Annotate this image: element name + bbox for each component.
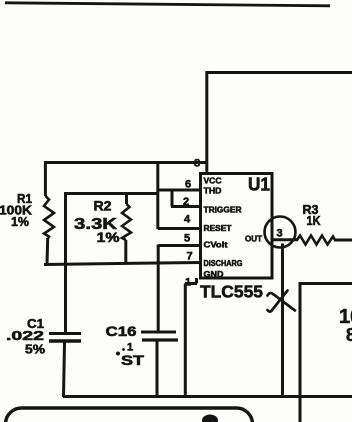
svg-text:8: 8	[346, 325, 352, 345]
wire pin 8 vertical drop	[205, 71, 208, 174]
svg-text:RESET: RESET	[204, 223, 233, 233]
pin number 8	[194, 158, 200, 170]
label R1 value 100K	[0, 203, 33, 218]
svg-text:7: 7	[187, 251, 193, 263]
label R1 tolerance 1%	[11, 214, 29, 229]
resistor R1	[44, 196, 54, 238]
wire pin 5 stub	[158, 244, 200, 247]
svg-text:1K: 1K	[307, 213, 322, 228]
label TLC555	[200, 282, 263, 302]
label clipped glyph below 10	[346, 325, 352, 345]
pin label DISCHARG	[204, 258, 243, 268]
wire bottom ground rail	[63, 395, 352, 398]
label C16 marking ST	[116, 352, 145, 369]
label R3	[303, 202, 319, 217]
capacitor C16 top plate	[141, 331, 176, 334]
label C1 tolerance 5%	[25, 342, 45, 357]
label C16	[106, 324, 137, 339]
svg-text:U1: U1	[248, 175, 270, 195]
svg-text:CVolt: CVolt	[204, 240, 228, 250]
wire vertical VCC to reset tie	[156, 162, 159, 229]
pin label CVolt	[204, 240, 228, 250]
svg-text:TRIGGER: TRIGGER	[204, 205, 243, 215]
pin label RESET	[204, 223, 233, 233]
wire top border rule	[5, 3, 330, 6]
svg-text:6: 6	[185, 179, 191, 191]
wire pin 3 output stub	[272, 238, 298, 241]
op-amp U1 IC body TLC555	[201, 174, 273, 279]
capacitor C16 bottom plate	[142, 338, 178, 341]
svg-text:DISCHARG: DISCHARG	[204, 258, 243, 268]
pin number 6	[185, 179, 191, 191]
pin label GND	[204, 269, 224, 279]
svg-text:5: 5	[184, 233, 190, 245]
pin label TRIGGER	[204, 205, 243, 215]
svg-text:1%: 1%	[11, 214, 29, 229]
svg-text:3: 3	[277, 228, 283, 240]
wire control node vertical (pin5/pin7 to C16)	[157, 245, 160, 332]
svg-text:4: 4	[184, 214, 191, 226]
wire output down to bottom rail	[281, 244, 284, 398]
wire R1 top lead	[44, 161, 47, 196]
svg-text:1: 1	[127, 342, 133, 354]
wire C16 bottom lead	[156, 342, 159, 398]
svg-text:2: 2	[183, 196, 189, 208]
X cut mark on output wire	[268, 291, 296, 312]
label clipped text inside rounded box	[202, 415, 218, 422]
wire R2 top lead	[125, 193, 128, 204]
pin number 5	[184, 233, 190, 245]
wire C1 bottom lead	[64, 343, 65, 398]
wire pin 2 tie-up	[171, 189, 201, 207]
label R2	[94, 198, 112, 214]
label C1 value .022	[6, 328, 44, 343]
wire THD to pin 6	[157, 189, 201, 192]
wire bottom node horizontal (R1/R2/C1 to pin 7)	[44, 263, 201, 265]
label R1	[17, 191, 32, 206]
wire pin 4 stub	[158, 227, 201, 230]
svg-text:GND: GND	[204, 269, 224, 279]
svg-text:1%: 1%	[97, 230, 120, 245]
label U1	[248, 175, 270, 195]
svg-text:ST: ST	[121, 353, 145, 368]
wire pin 1 GND jog	[185, 278, 197, 284]
label R2 tolerance 1%	[97, 230, 120, 245]
block bottom rounded callout box	[6, 408, 253, 422]
pin number 7	[187, 251, 193, 263]
label R2 value 3.3K	[74, 216, 118, 233]
wire THD node vertical (down to C1)	[64, 193, 67, 334]
wire VCC top-right rail	[207, 71, 352, 74]
label C1	[27, 316, 44, 331]
capacitor C1 bottom plate	[49, 339, 81, 342]
resistor R2	[122, 204, 131, 240]
pin label THD	[204, 186, 222, 196]
label 10 (clipped at right edge)	[339, 306, 352, 328]
capacitor C1 top plate	[49, 332, 81, 335]
pin label OUT	[245, 234, 263, 244]
svg-text:TLC555: TLC555	[200, 282, 263, 302]
label C16 value 1	[122, 342, 133, 354]
pin number 2	[183, 196, 189, 208]
wire THD node horizontal	[64, 192, 158, 195]
pin number 3	[277, 228, 283, 240]
svg-text:R2: R2	[94, 198, 112, 214]
pin label VCC	[204, 176, 222, 186]
svg-text:VCC: VCC	[204, 176, 222, 186]
block right-hand component box	[300, 284, 352, 422]
svg-text:THD: THD	[204, 186, 222, 196]
svg-text:C16: C16	[106, 324, 137, 339]
wire R1 bottom lead	[46, 238, 50, 264]
wire R2 bottom lead	[124, 240, 127, 264]
resistor R3	[297, 236, 335, 245]
wire VCC left rail	[45, 161, 207, 164]
wire R3 right lead	[334, 239, 352, 242]
svg-text:5%: 5%	[25, 342, 45, 357]
label R3 value 1K	[307, 213, 322, 228]
node pin 3 balloon circle	[265, 217, 296, 248]
pin number 4	[184, 214, 191, 226]
wire GND vertical to bottom rail	[184, 284, 187, 398]
pin number 1	[185, 277, 191, 289]
svg-text:OUT: OUT	[245, 234, 263, 244]
